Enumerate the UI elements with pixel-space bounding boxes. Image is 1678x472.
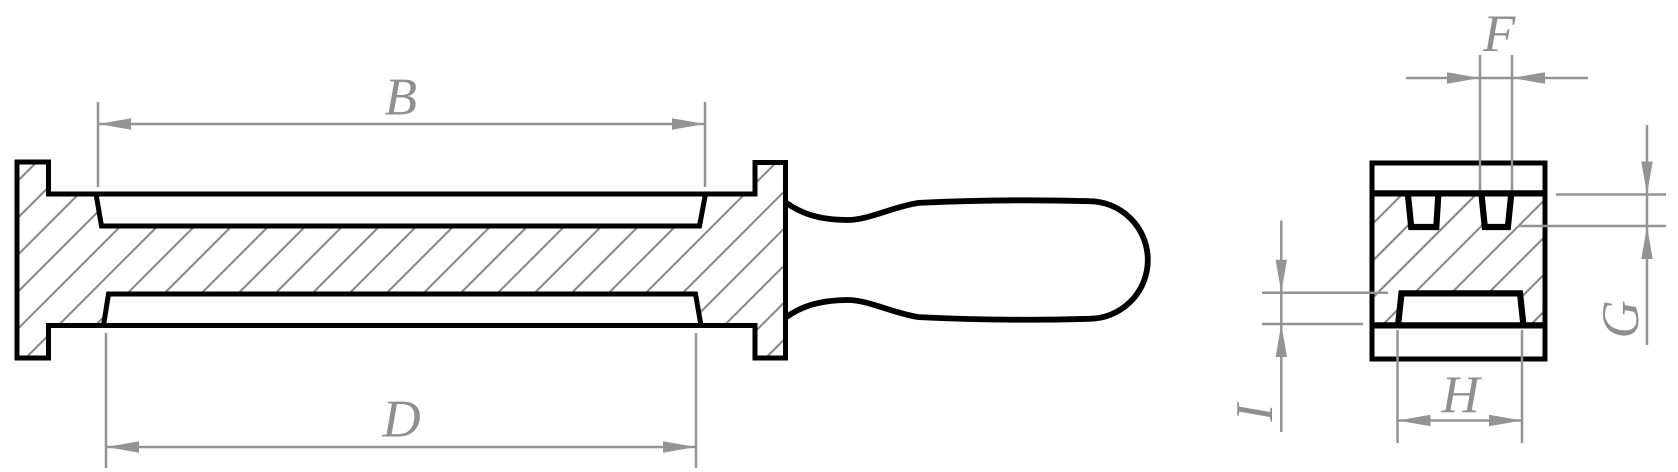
hatching left view: [0, 0, 1161, 472]
svg-text:G: G: [1592, 300, 1650, 338]
dimension B: [98, 69, 705, 188]
bottom groove (side view): [104, 294, 702, 326]
handle outline: [786, 200, 1148, 319]
section bottom trapezoid: [1398, 293, 1524, 325]
section view outer: [1372, 163, 1545, 359]
dimension G: [1518, 125, 1666, 345]
hatching section view: [1051, 0, 1678, 472]
section tooth 1: [1408, 193, 1439, 227]
section tooth 2: [1481, 193, 1511, 227]
dimension D: [106, 333, 696, 468]
top groove (side view): [96, 194, 706, 226]
section inner top line: [1372, 190, 1545, 196]
svg-text:F: F: [1482, 5, 1516, 63]
section inner bottom line: [1372, 322, 1545, 328]
svg-text:H: H: [1440, 366, 1482, 424]
dimension I: [1226, 221, 1388, 433]
dimension H: [1398, 330, 1523, 443]
svg-text:B: B: [385, 69, 417, 127]
svg-text:I: I: [1226, 402, 1284, 423]
svg-text:D: D: [381, 391, 420, 449]
dimension F: [1406, 5, 1588, 190]
body outline with flanges: [17, 162, 786, 358]
